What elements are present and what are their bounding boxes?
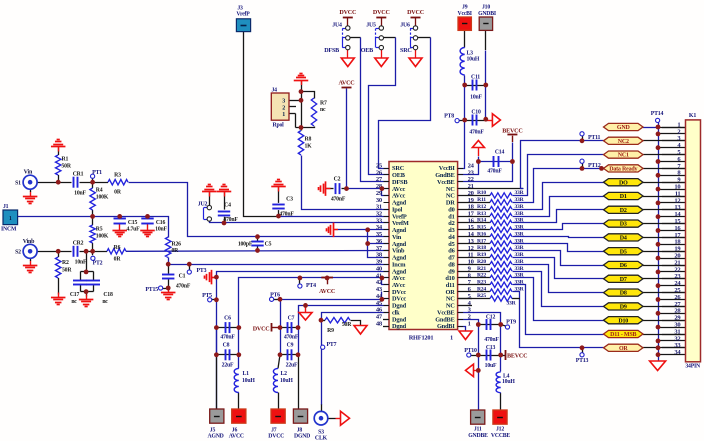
jumper JU2 xyxy=(198,201,212,221)
svg-text:D3: D3 xyxy=(620,222,627,228)
svg-text:DVCC: DVCC xyxy=(253,326,270,332)
wire R1 top lead xyxy=(58,148,60,183)
wire NC pin5 stub xyxy=(458,298,472,300)
svg-text:33R: 33R xyxy=(514,273,524,279)
gnd triangle right of C10 xyxy=(492,114,500,127)
svg-text:10uH: 10uH xyxy=(242,378,255,384)
ground below R2 xyxy=(51,293,65,305)
svg-text:nc: nc xyxy=(102,299,108,305)
wire JU6 DVCC stub xyxy=(415,17,417,26)
svg-text:SRC: SRC xyxy=(400,48,412,54)
wire D1 hexagon to K1 pin11 xyxy=(643,196,686,198)
resistor R25 33R xyxy=(477,293,517,306)
svg-text:10uF: 10uF xyxy=(485,363,497,369)
svg-text:470nF: 470nF xyxy=(484,337,499,343)
wire R17 output to K1 row 19 xyxy=(513,244,604,252)
svg-text:DO: DO xyxy=(619,180,628,186)
svg-text:J8: J8 xyxy=(297,427,303,433)
net label D1 xyxy=(604,192,644,200)
wire D11 hexagon to K1 pin31 xyxy=(643,334,686,336)
svg-text:J5: J5 xyxy=(210,427,216,433)
resistor R21 33R xyxy=(477,266,525,274)
svg-text:GndBI: GndBI xyxy=(437,323,455,330)
net label NC2 xyxy=(604,137,644,145)
ground above C4 xyxy=(217,185,232,197)
svg-text:33R: 33R xyxy=(514,190,524,196)
power flag AVCC at PT4 xyxy=(319,277,335,295)
wire VrefP: J3 down and right to IC pin32 xyxy=(244,32,390,217)
wire K1 pin17 stub xyxy=(662,237,686,239)
wire gnd left triangle stub xyxy=(474,370,479,372)
capacitor C18 nc xyxy=(86,281,113,306)
svg-text:470nF: 470nF xyxy=(469,129,484,135)
gnd triangle right of S3 xyxy=(341,411,350,425)
wire Dgnd pin48 stub xyxy=(383,326,389,328)
wire R4 leads xyxy=(92,182,94,216)
wire R16 output to K1 row 17 xyxy=(513,237,604,238)
test point PT13 xyxy=(576,353,589,364)
wire R26 bottom to INCM row into IC pin39 xyxy=(169,258,390,265)
wire JU4 DVCC stub xyxy=(347,17,349,26)
wire R5 leads xyxy=(92,216,94,251)
net label D2 xyxy=(604,206,644,214)
wire K1 pin33 stub xyxy=(662,347,686,349)
wire K1 pin29 stub xyxy=(662,320,686,322)
svg-text:S2: S2 xyxy=(15,250,21,256)
net label NC1 xyxy=(604,151,644,159)
wire D0 hexagon to K1 pin9 xyxy=(643,182,686,184)
test point PT14 xyxy=(651,111,664,123)
svg-text:4.7uF: 4.7uF xyxy=(127,226,141,232)
wire K1 pin3 stub xyxy=(662,140,686,142)
resistor R2 50R xyxy=(56,257,73,278)
capacitor C16 10nF xyxy=(141,219,167,233)
resistor R10 33R xyxy=(477,190,525,198)
connector J12 VCCBE xyxy=(491,410,510,439)
label DFSB xyxy=(324,48,339,54)
gnd triangle below K1 bus xyxy=(650,361,666,371)
svg-text:C5: C5 xyxy=(265,241,272,247)
net label OR xyxy=(604,344,644,352)
svg-text:PT13: PT13 xyxy=(576,358,589,364)
inductor L3 10uH xyxy=(460,48,480,76)
svg-text:C6: C6 xyxy=(224,315,231,321)
svg-text:D4: D4 xyxy=(620,236,627,242)
svg-text:R21: R21 xyxy=(477,266,486,272)
net label D6 xyxy=(604,261,644,269)
resistor R7 nc xyxy=(311,98,327,126)
wire C2 right to AVcc node xyxy=(342,188,347,190)
wire K1 pin11 stub xyxy=(662,196,686,198)
svg-text:J11: J11 xyxy=(474,427,482,433)
svg-text:C2: C2 xyxy=(334,177,341,183)
svg-text:D2: D2 xyxy=(620,208,627,214)
wire C10 gnd triangle stub xyxy=(486,120,493,122)
jumper JU5 xyxy=(366,23,383,50)
wire PT1 stub xyxy=(92,178,94,182)
svg-text:nc: nc xyxy=(71,299,77,305)
wire VccBI rail: J9 L3 C11 C10 to pin24 xyxy=(458,30,465,169)
svg-text:22uF: 22uF xyxy=(286,362,298,368)
wire AGND rail C6 C8 to J5 xyxy=(216,328,218,409)
svg-text:33R: 33R xyxy=(514,286,524,292)
wire Dgnd pin47 stub xyxy=(383,319,389,321)
svg-text:R13: R13 xyxy=(477,211,486,217)
wire C15 stub xyxy=(119,216,121,230)
wire JU4 gnd stub xyxy=(347,50,349,58)
svg-text:10nF: 10nF xyxy=(155,226,167,232)
IC U1 RHF1201 xyxy=(376,162,475,342)
svg-text:1K: 1K xyxy=(305,143,313,149)
power flag DVCC above JU4 xyxy=(339,10,356,17)
wire DVCC flag stub xyxy=(271,327,280,329)
wire GND hexagon to bus xyxy=(643,127,658,129)
wire JU5 gnd stub xyxy=(381,50,383,58)
capacitor C14 470nF xyxy=(487,149,504,174)
svg-text:Dgnd: Dgnd xyxy=(392,323,407,330)
wire C9 row xyxy=(280,354,298,356)
svg-text:D8: D8 xyxy=(620,291,627,297)
inductor L1 10uH xyxy=(234,368,255,392)
wire C10 row xyxy=(459,120,486,122)
svg-text:NC2: NC2 xyxy=(618,139,629,145)
wire GndBE rail: pin2 to C12 C13 J11 xyxy=(458,320,479,411)
jumper JU6 xyxy=(400,23,417,50)
svg-text:1: 1 xyxy=(282,112,285,118)
svg-text:R20: R20 xyxy=(477,259,486,265)
net label GND xyxy=(604,123,644,131)
test point PT5 xyxy=(202,293,212,302)
wire JU5 DVCC stub xyxy=(381,17,383,26)
connector J5 AGND xyxy=(208,409,224,440)
svg-text:470nF: 470nF xyxy=(176,284,191,290)
svg-text:R26: R26 xyxy=(172,242,182,248)
wire PT9 stub xyxy=(501,325,506,327)
connector J9 VccBI xyxy=(458,5,473,31)
jumper JU4 xyxy=(332,23,350,50)
wire C12 row xyxy=(478,324,500,326)
wire R20 input stub pin10 xyxy=(458,264,490,266)
ground left of C2 xyxy=(319,181,331,196)
wire K1 pin4 stub xyxy=(658,147,686,149)
wire C14 row xyxy=(478,161,512,163)
svg-text:33R: 33R xyxy=(514,204,524,210)
svg-text:C17: C17 xyxy=(70,292,80,298)
wire PT5 stub xyxy=(212,299,217,301)
wire R19 input stub pin11 xyxy=(458,257,490,259)
test point PT8 xyxy=(444,113,459,122)
capacitor C5 100pF xyxy=(238,241,272,247)
svg-text:33R: 33R xyxy=(514,238,524,244)
svg-text:PT15: PT15 xyxy=(145,287,158,293)
wire Agnd trunk: IC pin40 west then south to AGND rail xyxy=(217,272,390,410)
svg-text:34: 34 xyxy=(674,349,681,356)
svg-text:PT7: PT7 xyxy=(327,342,337,348)
svg-text:C14: C14 xyxy=(495,149,505,155)
capacitor C3 470nF xyxy=(272,197,294,218)
wire AVCC flag trunk to pin28 xyxy=(347,89,390,189)
svg-text:CLK: CLK xyxy=(315,436,328,441)
capacitor C8 22uF xyxy=(222,342,234,368)
svg-text:C18: C18 xyxy=(103,292,113,298)
wire D3 hexagon to K1 pin15 xyxy=(643,223,686,225)
svg-text:R22: R22 xyxy=(477,273,486,279)
svg-text:D6: D6 xyxy=(620,263,627,269)
svg-text:DFSB: DFSB xyxy=(324,48,339,54)
resistor R16 33R xyxy=(477,231,525,239)
resistor R18 33R xyxy=(477,245,525,253)
svg-text:L1: L1 xyxy=(243,371,250,377)
capacitor CR1 10nF xyxy=(73,172,87,197)
wire K1 pin28 stub xyxy=(658,313,686,315)
svg-text:C13: C13 xyxy=(486,345,496,351)
gnd triangle GndBE up xyxy=(472,141,484,148)
wire Vinb: CR2 to R6 xyxy=(80,251,108,253)
svg-text:J4: J4 xyxy=(272,88,278,94)
wire K1 pin8 stub xyxy=(658,175,686,177)
svg-text:S1: S1 xyxy=(15,181,21,187)
wire DFSB net: JU4 mid to IC pin27 xyxy=(350,38,390,182)
ground left on AGND trunk xyxy=(205,270,217,285)
resistor R17 33R xyxy=(477,238,525,246)
wire NC2 net: pin21 to hexagon xyxy=(521,141,604,189)
capacitor C4 470nF xyxy=(218,202,239,223)
gnd triangle below JU5 xyxy=(375,58,388,67)
net label D3 xyxy=(604,220,644,228)
gnd triangle left near PT10 xyxy=(466,364,474,377)
wire R12 input stub pin18 xyxy=(458,209,490,211)
wire VrefM: JU2 to IC pin33 xyxy=(210,222,390,223)
svg-text:CR2: CR2 xyxy=(73,240,84,246)
gnd triangle below JU4 xyxy=(341,58,354,67)
svg-text:D10: D10 xyxy=(618,318,628,324)
power flag DVCC at C7 xyxy=(253,323,272,332)
svg-text:10uH: 10uH xyxy=(467,56,480,62)
svg-text:C4: C4 xyxy=(224,202,231,208)
wire K1 pin13 stub xyxy=(662,209,686,211)
svg-text:R23: R23 xyxy=(477,279,486,285)
wire K1 pin22 stub xyxy=(658,271,686,273)
ground below C17 C18 xyxy=(79,295,94,307)
svg-text:DGND: DGND xyxy=(294,434,310,440)
ground below C1 xyxy=(161,288,176,300)
svg-text:J12: J12 xyxy=(496,427,504,433)
wire K1 pin26 stub xyxy=(658,299,686,301)
svg-text:AVCC: AVCC xyxy=(338,81,354,87)
resistor R12 33R xyxy=(477,204,525,212)
label SRC xyxy=(400,48,412,54)
wire K1 pin2 stub xyxy=(658,133,686,135)
wire BEVCC left flag stub xyxy=(501,355,505,357)
wire PT13 stub xyxy=(582,348,584,353)
gnd triangle after R9 xyxy=(354,326,367,335)
test point PT11 xyxy=(580,132,601,142)
wire Vin: CR1 to R3, junction run xyxy=(80,182,109,184)
wire GndBI pin1 to triangle xyxy=(458,327,466,332)
svg-text:R4: R4 xyxy=(96,188,103,194)
wire R11 output to K1 row 7 xyxy=(513,169,604,203)
wire R15 input stub pin15 xyxy=(458,229,490,231)
test point PT2 xyxy=(91,256,103,266)
svg-text:R11: R11 xyxy=(477,197,486,203)
svg-text:50R: 50R xyxy=(62,268,72,274)
resistor R19 33R xyxy=(477,252,525,260)
svg-text:R14: R14 xyxy=(477,218,486,224)
svg-text:34PIN: 34PIN xyxy=(685,363,701,369)
wire K1 pin19 stub xyxy=(662,251,686,253)
svg-text:C1: C1 xyxy=(179,274,186,280)
wire C3 leads xyxy=(278,187,280,216)
wire K1 pin12 stub xyxy=(658,202,686,204)
net label DO xyxy=(604,179,644,187)
wire R24 output to K1 row 33 xyxy=(513,292,604,348)
connector S2 Vinb BNC xyxy=(15,239,37,258)
svg-text:33R: 33R xyxy=(506,300,516,306)
svg-text:50R: 50R xyxy=(62,164,72,170)
wire R10 input stub pin20 xyxy=(458,195,490,197)
svg-text:0R: 0R xyxy=(114,257,122,263)
svg-text:R8: R8 xyxy=(305,137,312,143)
wire Dgnd pin45 triangle stub xyxy=(305,305,307,312)
svg-text:10uH: 10uH xyxy=(280,378,293,384)
wire R14 output to K1 row 13 xyxy=(513,210,604,223)
svg-text:33R: 33R xyxy=(514,218,524,224)
svg-text:J6: J6 xyxy=(232,427,238,433)
wire D9 hexagon to K1 pin27 xyxy=(643,306,686,308)
svg-text:VCCBE: VCCBE xyxy=(491,433,510,439)
wire Data Ready hexagon to K1 pin7 xyxy=(643,168,686,170)
wire K1 pin14 stub xyxy=(658,216,686,218)
wire R12 output to K1 row 9 xyxy=(513,183,604,210)
wire K1 pin18 stub xyxy=(658,244,686,246)
resistor R5 100K xyxy=(90,225,109,243)
wire D6 hexagon to K1 pin21 xyxy=(643,265,686,267)
wire AVcc bracket pins 28-29 xyxy=(382,189,390,196)
svg-text:K1: K1 xyxy=(689,113,696,119)
svg-text:PT2: PT2 xyxy=(93,261,103,267)
svg-text:JU2: JU2 xyxy=(198,201,208,207)
label OEB xyxy=(361,48,373,54)
capacitor C9 22uF xyxy=(286,342,298,368)
wire Vin: S1 to CR1 node xyxy=(30,182,71,184)
svg-text:J10: J10 xyxy=(482,5,490,11)
svg-text:PT11: PT11 xyxy=(588,135,601,141)
svg-text:C10: C10 xyxy=(471,110,481,116)
wire K1 pin15 stub xyxy=(662,223,686,225)
svg-text:JU5: JU5 xyxy=(366,23,376,29)
capacitor C13 10uF xyxy=(485,345,497,369)
svg-text:R1: R1 xyxy=(62,157,69,163)
svg-text:DVCC: DVCC xyxy=(373,10,390,16)
svg-text:C9: C9 xyxy=(287,342,294,348)
net label D10 xyxy=(604,317,644,325)
wire K1 pin5 stub xyxy=(662,154,686,156)
connector J6 AVCC xyxy=(229,409,246,440)
wire D5 hexagon to K1 pin19 xyxy=(643,251,686,253)
svg-text:R24: R24 xyxy=(477,286,486,292)
gnd triangle below pin45 xyxy=(299,313,312,321)
svg-text:100pF: 100pF xyxy=(238,242,253,248)
wire VccBE rail: pin3 to C12 C13 L4 J12 xyxy=(458,313,501,411)
wire R19 output to K1 row 23 xyxy=(513,258,604,279)
ground above JU2 xyxy=(202,185,217,197)
test point PT3 xyxy=(187,268,206,274)
svg-text:C16: C16 xyxy=(156,220,166,226)
svg-text:VrefP: VrefP xyxy=(236,12,250,18)
wire R8 to IC pin31 Ipol xyxy=(302,156,390,210)
connector J7 DVCC xyxy=(268,409,285,440)
wire PT2 stub xyxy=(92,251,94,255)
svg-text:D5: D5 xyxy=(620,249,627,255)
svg-text:C11: C11 xyxy=(471,75,480,81)
wire R13 output to K1 row 11 xyxy=(513,197,604,217)
wire K1 pin21 stub xyxy=(662,265,686,267)
resistor R14 33R xyxy=(477,218,525,226)
svg-text:R7: R7 xyxy=(320,101,327,107)
svg-text:R10: R10 xyxy=(477,190,486,196)
connector J10 GNDBI xyxy=(478,5,497,31)
wire R10 output to K1 row 5 xyxy=(513,155,604,196)
wire K1 pin16 stub xyxy=(658,230,686,232)
svg-text:33R: 33R xyxy=(514,279,524,285)
wire R2 top lead xyxy=(58,251,60,294)
wire clk trunk: S3 up to pin46 xyxy=(322,313,390,419)
wire J4 R7 R8 Ipol network xyxy=(289,81,315,131)
svg-text:R12: R12 xyxy=(477,204,486,210)
svg-text:R19: R19 xyxy=(477,252,486,258)
wire C11 row xyxy=(465,85,486,87)
svg-text:Rpol: Rpol xyxy=(273,122,285,128)
svg-text:CR1: CR1 xyxy=(73,172,84,178)
svg-text:10uH: 10uH xyxy=(502,379,515,385)
svg-text:AGND: AGND xyxy=(208,434,224,440)
ground above C3 xyxy=(271,180,286,192)
wire C7 row xyxy=(280,327,298,329)
wire R13 input stub pin17 xyxy=(458,216,490,218)
resistor R6 0R xyxy=(107,245,126,263)
svg-text:INCM: INCM xyxy=(1,227,17,233)
wire R9 branch xyxy=(321,321,361,326)
connector J4 Rpol xyxy=(271,88,289,129)
capacitor C12 470nF xyxy=(484,314,499,343)
svg-text:R9: R9 xyxy=(327,328,334,334)
ground below S1 xyxy=(23,189,37,204)
wire JU2 top stub xyxy=(209,191,211,205)
svg-text:1: 1 xyxy=(468,320,471,327)
wire C2 left to gnd xyxy=(326,188,334,190)
inductor L4 10uH xyxy=(496,372,515,393)
svg-text:470nF: 470nF xyxy=(220,335,235,341)
wire C13 row xyxy=(471,355,501,357)
svg-text:nc: nc xyxy=(320,107,326,113)
resistor R22 33R xyxy=(477,273,525,281)
ground below C16 xyxy=(140,231,155,237)
net label D4 xyxy=(604,234,644,242)
wire GndBE triangle to C14 to pin23 xyxy=(458,148,479,175)
svg-text:R2: R2 xyxy=(62,260,69,266)
svg-text:Vin: Vin xyxy=(24,169,33,175)
resistor R13 33R xyxy=(477,211,525,219)
wire PT11 stub xyxy=(582,135,584,141)
power flag DVCC above JU6 xyxy=(407,10,424,17)
inductor L2 10uH xyxy=(273,368,293,392)
wire D2 hexagon to K1 pin13 xyxy=(643,209,686,211)
svg-text:DVCC: DVCC xyxy=(339,10,356,16)
svg-text:100K: 100K xyxy=(96,194,109,200)
wire BEVCC flag to C14 right to pin22 xyxy=(458,136,513,182)
wire DVcc descent to C7 xyxy=(280,300,282,328)
svg-text:Data Ready: Data Ready xyxy=(609,167,637,173)
